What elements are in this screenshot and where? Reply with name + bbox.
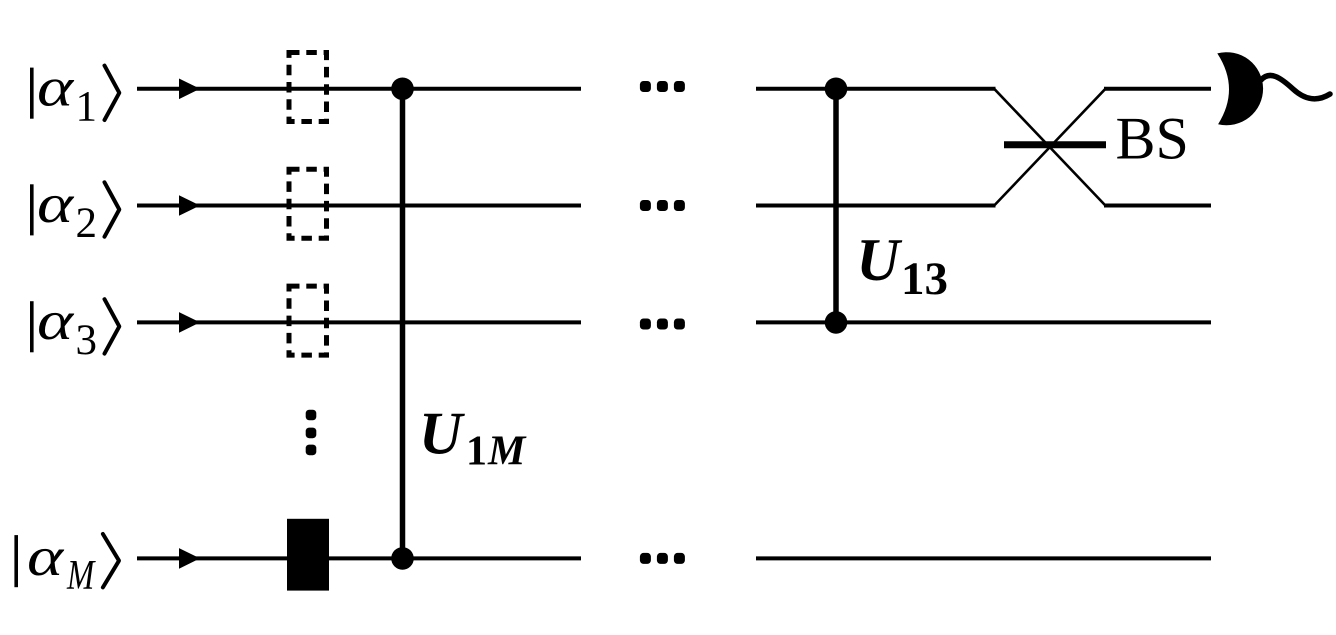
wire rail 3 right segment: [756, 320, 1211, 324]
horizontal ellipsis on rail 3: [640, 319, 685, 330]
svg-text:α: α: [27, 527, 65, 587]
wire rail 1 output after BS: [1104, 87, 1211, 91]
svg-text:α: α: [37, 174, 75, 234]
svg-text:1: 1: [466, 429, 487, 475]
horizontal ellipsis on rail 2: [640, 200, 685, 211]
arrow on rail M: [179, 548, 200, 569]
label U_13: [856, 227, 948, 305]
dashed box on rail 1: [289, 53, 327, 122]
beam splitter thick bar: [1004, 141, 1106, 148]
node label ket |alpha_1>: [32, 58, 120, 131]
wire rail M right segment: [756, 556, 1211, 560]
horizontal ellipsis on rail M: [640, 553, 685, 564]
dashed box on rail 2: [289, 169, 327, 238]
svg-text:M: M: [66, 552, 96, 599]
arrow on rail 3: [179, 312, 200, 333]
arrow on rail 1: [179, 79, 200, 100]
wire rail M left segment: [137, 556, 581, 560]
controlled gate U_13 vertical wire: [833, 89, 839, 323]
node label ket |alpha_3>: [32, 291, 120, 364]
node label ket |alpha_M>: [16, 527, 119, 599]
svg-text:α: α: [37, 291, 75, 351]
svg-text:3: 3: [76, 317, 98, 364]
control dot on rail M: [391, 547, 414, 570]
wire rail 1 left segment: [137, 87, 581, 91]
horizontal ellipsis on rail 1: [640, 81, 685, 92]
control dot on rail 3 right: [825, 311, 848, 334]
wire rail 1 right segment before BS: [756, 87, 996, 91]
vertical ellipsis between rail 3 and rail M: [306, 410, 317, 456]
controlled gate U_1M vertical wire: [400, 89, 406, 559]
node label ket |alpha_2>: [32, 174, 120, 247]
arrow on rail 2: [179, 195, 200, 216]
beam splitter crossing diagonal down: [994, 89, 1105, 206]
wire rail 2 right segment before BS: [756, 204, 996, 208]
wire rail 3 left segment: [137, 320, 581, 324]
svg-text:U: U: [856, 227, 902, 293]
svg-text:α: α: [37, 58, 75, 118]
control dot on rail 1 right: [825, 78, 848, 101]
detector squiggle lead: [1261, 75, 1330, 98]
svg-text:BS: BS: [1116, 106, 1189, 172]
wire rail 2 left segment: [137, 204, 581, 208]
svg-text:13: 13: [901, 253, 948, 305]
wire rail 2 output after BS: [1104, 204, 1211, 208]
svg-text:2: 2: [76, 200, 98, 247]
beam splitter crossing diagonal up: [994, 89, 1105, 206]
svg-text:U: U: [419, 401, 465, 467]
control dot on rail 1: [391, 78, 414, 101]
filled box on rail M: [287, 519, 329, 591]
label U_1M: [419, 401, 527, 475]
detector crescent: [1217, 52, 1263, 125]
svg-text:M: M: [487, 429, 527, 475]
dashed box on rail 3: [289, 286, 327, 355]
svg-text:1: 1: [76, 83, 98, 130]
